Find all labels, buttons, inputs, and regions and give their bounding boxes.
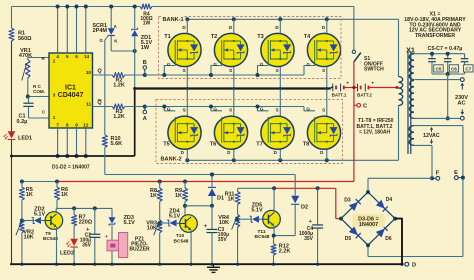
svg-text:IC1: IC1 — [65, 85, 76, 92]
svg-text:4: 4 — [56, 54, 59, 59]
wire T3 source lead — [279, 59, 281, 89]
label X1 — [406, 46, 415, 55]
svg-text:5: 5 — [66, 54, 69, 59]
wire R11 node to charger line — [238, 186, 277, 190]
svg-text:1K: 1K — [150, 193, 157, 199]
wire 12V top to E line — [414, 126, 463, 257]
wire bank-2 drain bus — [187, 106, 398, 161]
wire HV 230V tap — [415, 78, 461, 80]
wire charger positive (red) — [274, 188, 341, 218]
wire T9 collector node — [56, 207, 112, 209]
wire IC pin3 (RC COM) — [26, 95, 49, 99]
svg-text:G: G — [306, 107, 310, 112]
transistor Q T6 (MOSFET) — [210, 107, 248, 155]
wire R12 to ground rail — [272, 255, 274, 264]
IC U1 CD4047 body — [49, 53, 93, 128]
potentiometer VR4 — [218, 215, 240, 230]
svg-text:F: F — [436, 171, 440, 177]
wire T9 emitter — [55, 227, 57, 264]
svg-text:1: 1 — [53, 115, 56, 120]
svg-text:G: G — [213, 62, 217, 67]
transistor Q T7 (MOSFET) — [256, 107, 294, 155]
capacitor C4 — [299, 186, 323, 264]
wire R10 to D1 node — [105, 148, 295, 175]
terminal E — [454, 170, 465, 180]
wire IC pin11 Qbar — [93, 100, 113, 107]
arrow 230V upper — [460, 83, 464, 90]
junction dot D1 sense line — [210, 173, 214, 177]
wire T5 drain lead — [186, 142, 188, 160]
svg-text:G: G — [167, 107, 171, 112]
svg-text:1K: 1K — [61, 192, 68, 198]
svg-text:220Ω: 220Ω — [79, 220, 93, 226]
terminal 230V lower — [460, 116, 464, 120]
wire gate bus bank-2 — [145, 107, 315, 111]
thyristor SCR1 — [92, 23, 118, 44]
bridge rectifier outline — [341, 192, 395, 245]
battery BATT.1 — [331, 81, 354, 97]
wire T4 source lead — [326, 59, 328, 89]
svg-text:2P4M: 2P4M — [93, 28, 108, 34]
wire D2 to T11 emitter — [274, 235, 296, 237]
svg-text:T9: T9 — [45, 231, 51, 237]
transistor Q T2 (MOSFET) — [211, 25, 248, 73]
zener ZD4 — [158, 208, 181, 226]
svg-text:5.6K: 5.6K — [111, 141, 123, 147]
junction dots bottom rail — [20, 263, 403, 266]
BANK-2 dashed border — [156, 99, 343, 163]
diode D3 — [344, 198, 360, 212]
svg-text:+: + — [86, 227, 89, 233]
resistor R11 — [225, 191, 240, 204]
svg-text:CD4047: CD4047 — [58, 92, 84, 99]
svg-text:AC: AC — [457, 101, 465, 107]
wire T4 drain lead — [326, 19, 328, 41]
zener ZD2 — [20, 207, 46, 224]
resistor R8 — [150, 180, 162, 202]
svg-text:S: S — [322, 108, 325, 113]
svg-text:D3: D3 — [344, 198, 351, 204]
arrow 12VAC upper — [430, 127, 433, 132]
wire SCR1 cathode — [111, 36, 137, 54]
wire R3 to gate bus A — [125, 105, 145, 107]
capacitor C5 — [428, 52, 443, 74]
label C5-C7 value — [428, 46, 463, 52]
svg-text:T11: T11 — [257, 229, 265, 235]
transformer X1 secondary 12V winding — [409, 126, 414, 146]
svg-text:1W: 1W — [141, 45, 150, 51]
diode D2 — [291, 175, 308, 236]
svg-text:BANK-1: BANK-1 — [163, 17, 184, 23]
resistor R1 — [9, 28, 32, 42]
ground symbol — [207, 264, 220, 272]
potentiometer VR1 — [19, 48, 32, 81]
svg-text:TRANSFORMER: TRANSFORMER — [415, 33, 456, 39]
wire T1 drain lead — [186, 19, 188, 41]
svg-text:6: 6 — [75, 54, 78, 59]
wire R6 to T9 collector — [55, 200, 58, 214]
svg-text:1.2K: 1.2K — [113, 83, 125, 89]
svg-text:T7: T7 — [256, 141, 263, 147]
diode D4 — [376, 197, 393, 212]
diode D5 — [345, 226, 361, 242]
wire bank-1 drain bus — [187, 19, 398, 76]
junction dots gate bus bank-2 — [162, 105, 259, 109]
potentiometer VR2 — [16, 220, 34, 241]
wire T5 source lead — [186, 89, 188, 125]
svg-text:S: S — [276, 108, 279, 113]
resistor R9 — [175, 180, 188, 202]
wire battery to transformer centre tap (red) — [369, 86, 399, 89]
svg-text:1K: 1K — [227, 197, 234, 203]
svg-text:D4: D4 — [386, 197, 393, 203]
wire cap bus down to HV low end — [446, 74, 450, 120]
svg-text:BC548: BC548 — [255, 234, 270, 240]
terminal 230V upper — [460, 78, 464, 82]
svg-text:2.2K: 2.2K — [279, 249, 291, 255]
transformer X1 secondary HV winding — [409, 54, 414, 119]
svg-text:C5: C5 — [436, 67, 442, 72]
svg-text:LED2: LED2 — [60, 251, 74, 257]
svg-text:BUZZER: BUZZER — [129, 246, 150, 252]
wire T7 drain lead — [279, 142, 281, 160]
svg-text:S: S — [229, 108, 232, 113]
diode D1 — [208, 173, 224, 206]
svg-text:D1-D2 = 1N4007: D1-D2 = 1N4007 — [52, 165, 90, 171]
wire T11 collector — [273, 188, 275, 213]
LED LED1 — [4, 131, 33, 141]
note T1-T8 battery spec — [357, 118, 394, 135]
label D1-D2 = 1N4007 — [52, 165, 90, 171]
svg-text:5.1V: 5.1V — [34, 212, 46, 218]
svg-text:560Ω: 560Ω — [18, 36, 32, 42]
wire R9 to T10 collector — [183, 202, 187, 217]
junction dots gate bus bank-1 — [162, 73, 259, 77]
wires IC top pins 4,5,6,14 to rail — [58, 7, 86, 54]
wire T2 source lead — [233, 59, 235, 89]
battery BATT.2 — [352, 81, 374, 97]
wire rail to S1 — [353, 7, 355, 51]
svg-text:1K: 1K — [175, 193, 182, 199]
svg-text:G: G — [167, 62, 171, 67]
svg-text:+: + — [105, 234, 108, 239]
svg-text:T2: T2 — [211, 34, 218, 40]
wire F to bridge AC top — [368, 178, 432, 192]
wire R8 to VR3 — [159, 202, 161, 221]
wire common source rail — [135, 86, 331, 91]
svg-text:E: E — [454, 170, 458, 176]
BANK-1 dashed border — [159, 14, 342, 79]
wire IC pin10 Q — [93, 69, 113, 75]
capacitor C6 — [444, 52, 459, 74]
junction dots bank-1 drain bus — [185, 17, 328, 21]
resistor R4 — [140, 4, 152, 27]
wire VR1 to pin3 node — [27, 78, 29, 97]
wire gate bus bank-1 — [145, 66, 315, 76]
arrow 12VAC lower — [430, 139, 433, 144]
svg-text:9: 9 — [75, 123, 78, 128]
resistor R7 — [72, 206, 93, 226]
svg-text:R C: R C — [33, 84, 42, 89]
wire bottom negative rail — [10, 262, 403, 266]
svg-text:5.1V: 5.1V — [251, 208, 263, 214]
svg-text:2: 2 — [53, 58, 56, 63]
svg-text:T8: T8 — [303, 141, 310, 147]
junction dots IC bottom pins — [56, 154, 88, 158]
wire T10 collector to D1 anode — [185, 204, 214, 208]
svg-text:T1: T1 — [164, 34, 171, 40]
switch S1 — [352, 50, 384, 73]
wire R5 to VR2 — [21, 200, 23, 220]
potentiometer VR3 — [146, 220, 162, 235]
svg-text:D2: D2 — [301, 205, 308, 211]
wire T1 source lead — [186, 59, 188, 89]
svg-text:T3: T3 — [257, 34, 264, 40]
svg-text:T5: T5 — [163, 141, 170, 147]
label 12VAC — [423, 133, 440, 139]
wire capacitor bottom bus — [432, 72, 465, 76]
wire bridge positive output (black) — [395, 219, 402, 265]
arrow 230V lower — [460, 109, 464, 115]
svg-text:C5-C7 = 0.47µ: C5-C7 = 0.47µ — [428, 46, 463, 52]
diode D6 — [376, 226, 392, 242]
wire left vertical (R1 to LED1 to ground rail) — [10, 41, 12, 265]
svg-text:G: G — [213, 107, 217, 112]
junction dot battery-S1 — [352, 86, 355, 89]
svg-text:5.1V: 5.1V — [124, 220, 136, 226]
svg-text:8: 8 — [66, 123, 69, 128]
svg-text:BATT.1: BATT.1 — [332, 93, 347, 98]
zener ZD3 — [109, 208, 136, 240]
svg-text:1W: 1W — [143, 21, 151, 27]
terminal F — [430, 171, 440, 181]
resistor R2 — [112, 73, 125, 89]
svg-text:A: A — [143, 116, 147, 122]
svg-text:5.1V: 5.1V — [169, 213, 181, 219]
capacitor C3 — [204, 206, 229, 265]
svg-text:S: S — [183, 68, 186, 73]
svg-text:7: 7 — [56, 123, 59, 128]
svg-text:BC548: BC548 — [174, 238, 189, 244]
transistor Q T8 (MOSFET) — [303, 107, 341, 155]
resistor R3 — [112, 104, 125, 120]
svg-text:T4: T4 — [304, 34, 311, 40]
wire R11 to VR4 — [237, 205, 239, 215]
svg-text:11: 11 — [86, 102, 91, 107]
svg-text:D: D — [412, 263, 416, 269]
svg-text:35V: 35V — [82, 242, 92, 248]
svg-text:D5: D5 — [345, 236, 352, 242]
capacitor C2 — [80, 206, 101, 264]
label 230V AC — [455, 95, 468, 107]
svg-text:T1-T8 = IRF250: T1-T8 = IRF250 — [358, 118, 394, 124]
svg-text:1K: 1K — [26, 192, 33, 198]
resistor R6 — [55, 180, 69, 201]
svg-text:+: + — [309, 219, 312, 225]
svg-text:+: + — [346, 81, 349, 86]
wire 12V bottom to F — [414, 145, 432, 178]
capacitor C7 — [461, 54, 473, 74]
svg-text:S: S — [229, 68, 232, 73]
transistor Q T10 — [174, 215, 198, 245]
wire HV low end — [414, 117, 460, 119]
svg-text:COM.: COM. — [33, 89, 45, 94]
note transformer spec — [404, 11, 466, 39]
terminal A — [143, 105, 147, 122]
transformer X1 core — [408, 52, 411, 155]
wire top +12V rail — [12, 5, 354, 7]
zener ZD5 — [236, 203, 264, 223]
svg-text:D1: D1 — [217, 196, 224, 202]
svg-text:G: G — [260, 62, 264, 67]
svg-text:BATT.2: BATT.2 — [357, 93, 372, 98]
junction dots source rail — [186, 87, 328, 90]
junction dots bridge corners — [339, 190, 397, 247]
svg-text:G: G — [306, 62, 310, 67]
wire low-voltage supply rail — [22, 180, 354, 182]
wire T6 source lead — [233, 89, 235, 125]
zener ZD1 — [131, 5, 152, 52]
wire T10 emitter — [190, 230, 192, 264]
transformer X1 primary winding — [399, 77, 403, 106]
junction dots IC top pins — [56, 5, 88, 9]
svg-text:35V: 35V — [304, 236, 314, 242]
wire R2 to gate bus B — [125, 74, 145, 76]
wire VR2 to ground rail — [21, 233, 23, 265]
svg-text:10K: 10K — [147, 226, 157, 232]
wire T8 source lead — [326, 89, 328, 125]
wire IC pin1 — [29, 110, 50, 119]
svg-text:G: G — [260, 107, 264, 112]
transistor Q T11 — [255, 210, 281, 240]
svg-text:= 12V, 180AH: = 12V, 180AH — [359, 129, 390, 135]
wire VR3 to ground rail — [159, 233, 161, 265]
terminal C — [354, 103, 367, 109]
label D3-D6 value — [353, 214, 385, 228]
resistor R10 — [102, 135, 122, 148]
svg-text:T10: T10 — [176, 233, 185, 239]
resistor R12 — [271, 243, 290, 255]
wire SCR1 anode — [109, 5, 117, 30]
resistor R5 — [19, 180, 32, 201]
svg-text:10K: 10K — [219, 220, 229, 226]
wire T3 drain lead — [279, 19, 281, 41]
wire R1 top lead — [10, 7, 12, 29]
svg-text:470K: 470K — [19, 53, 32, 59]
wire IC pin2 to VR1 — [28, 58, 49, 60]
svg-text:B: B — [143, 60, 147, 66]
svg-text:BANK-2: BANK-2 — [161, 157, 182, 163]
svg-text:12: 12 — [83, 123, 89, 128]
transistor Q T5 (MOSFET) — [163, 107, 201, 155]
transistor Q T9 — [43, 212, 63, 242]
wire VR4 to ground rail — [237, 227, 239, 265]
wire T11 emitter — [272, 226, 276, 244]
svg-text:3: 3 — [53, 93, 56, 98]
svg-text:S: S — [276, 68, 279, 73]
svg-text:SWITCH: SWITCH — [364, 67, 384, 73]
wire IC ground line — [10, 155, 135, 158]
svg-text:+: + — [204, 223, 207, 229]
svg-text:1.2K: 1.2K — [113, 114, 125, 120]
svg-text:S: S — [322, 68, 325, 73]
svg-text:C6: C6 — [451, 67, 457, 72]
svg-text:+: + — [371, 81, 374, 86]
wire HV top bus — [414, 53, 465, 55]
transistor Q T4 (MOSFET) — [304, 25, 341, 73]
buzzer PZ1 — [105, 233, 150, 265]
wire T8 drain lead — [326, 142, 328, 160]
wire T2 drain lead — [233, 19, 235, 41]
svg-text:T6: T6 — [210, 141, 217, 147]
svg-text:S: S — [183, 108, 186, 113]
junction dots bank-2 drain bus — [185, 158, 328, 162]
svg-text:LED1: LED1 — [18, 136, 32, 142]
wire T7 source lead — [279, 89, 281, 125]
wire R11 top — [237, 188, 239, 191]
wire E to bridge AC bottom — [368, 245, 463, 256]
wire SCR1 gate to R10 — [104, 40, 106, 135]
label RC COM — [33, 56, 46, 94]
svg-text:Q: Q — [97, 100, 102, 106]
LED LED2 — [60, 226, 78, 265]
svg-text:35V: 35V — [218, 237, 228, 243]
terminal B — [143, 60, 147, 77]
svg-text:G: G — [99, 38, 103, 43]
svg-text:0.2µ: 0.2µ — [17, 119, 28, 125]
svg-text:10: 10 — [86, 70, 92, 75]
svg-text:10K: 10K — [24, 235, 34, 241]
svg-text:12VAC: 12VAC — [423, 133, 440, 139]
capacitor C1 — [17, 97, 34, 125]
transistor Q T3 (MOSFET) — [257, 25, 294, 73]
wires IC bottom pins 7,8,9,12 to ground line — [58, 128, 86, 156]
svg-text:C7: C7 — [465, 67, 471, 72]
wire S1 to battery junction (red) — [353, 62, 355, 182]
svg-text:D6: D6 — [385, 236, 392, 242]
svg-text:14: 14 — [84, 54, 90, 59]
svg-text:C: C — [363, 103, 367, 109]
transistor Q T1 (MOSFET) — [164, 25, 201, 73]
svg-text:1N4007: 1N4007 — [359, 222, 378, 228]
wire T6 drain lead — [233, 142, 235, 160]
terminal D — [405, 262, 416, 268]
IC1 pin numbers — [53, 54, 92, 127]
wire ZD1-SCR cathode to source rail — [133, 51, 136, 156]
svg-text:Q: Q — [97, 69, 102, 75]
